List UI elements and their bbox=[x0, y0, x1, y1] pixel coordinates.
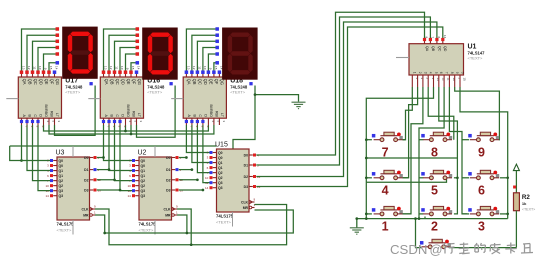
wires U2 D inputs to next stage bbox=[179, 157, 187, 159]
U2 CLK MR pins bbox=[164, 205, 178, 218]
VCC power arrow bbox=[513, 164, 519, 170]
svg-text:<TEXT>: <TEXT> bbox=[468, 56, 484, 61]
svg-text:D: D bbox=[203, 114, 207, 117]
svg-text:Q1: Q1 bbox=[218, 161, 223, 165]
svg-text:Q1: Q1 bbox=[59, 169, 64, 173]
svg-text:15: 15 bbox=[49, 66, 53, 70]
svg-text:14: 14 bbox=[45, 194, 49, 198]
svg-text:QD: QD bbox=[203, 79, 208, 85]
svg-text:QF: QF bbox=[214, 79, 219, 85]
svg-text:Q3: Q3 bbox=[141, 194, 146, 198]
resistor R2 bbox=[514, 193, 520, 211]
svg-text:D2: D2 bbox=[244, 175, 248, 179]
svg-text:QD: QD bbox=[120, 79, 125, 85]
svg-text:13: 13 bbox=[436, 78, 440, 82]
wire display1 common to LT bbox=[55, 86, 96, 136]
svg-text:D1: D1 bbox=[244, 164, 248, 168]
svg-text:QB: QB bbox=[109, 79, 114, 85]
svg-text:1: 1 bbox=[382, 220, 389, 234]
svg-text:15: 15 bbox=[463, 78, 467, 82]
svg-text:7: 7 bbox=[382, 146, 389, 160]
svg-text:5: 5 bbox=[431, 184, 438, 198]
svg-text:C: C bbox=[198, 114, 202, 117]
svg-text:QA: QA bbox=[425, 46, 429, 52]
svg-text:2: 2 bbox=[418, 72, 422, 74]
svg-text:6: 6 bbox=[478, 184, 485, 198]
svg-text:QG: QG bbox=[55, 79, 60, 85]
svg-text:Q2: Q2 bbox=[218, 176, 223, 180]
wire staircase decoder to display bbox=[22, 29, 58, 71]
svg-text:CSDN: CSDN bbox=[390, 242, 427, 257]
svg-text:8: 8 bbox=[431, 146, 438, 160]
hidden power stub bbox=[88, 98, 100, 100]
push button 8 bbox=[421, 132, 452, 141]
wire display3 common to LT and ground bbox=[233, 86, 255, 150]
svg-text:D3: D3 bbox=[244, 185, 248, 189]
svg-text:11: 11 bbox=[447, 78, 451, 81]
watermark chinese characters bbox=[443, 243, 533, 255]
hidden power line bbox=[72, 146, 74, 157]
svg-text:14: 14 bbox=[137, 66, 141, 70]
svg-text:Q3: Q3 bbox=[59, 194, 64, 198]
display common pin bbox=[249, 82, 252, 85]
push button 4 bbox=[372, 170, 403, 179]
svg-text:<TEXT>: <TEXT> bbox=[230, 90, 246, 95]
svg-text:Q0: Q0 bbox=[141, 164, 146, 168]
svg-text:Q3: Q3 bbox=[141, 189, 146, 193]
svg-text:CLK: CLK bbox=[241, 201, 249, 205]
svg-text:D: D bbox=[38, 114, 42, 117]
svg-text:74LS175: 74LS175 bbox=[57, 222, 75, 227]
svg-text:<TEXT>: <TEXT> bbox=[139, 228, 155, 233]
svg-text:4: 4 bbox=[382, 184, 389, 198]
wire RBI chain bbox=[49, 125, 214, 134]
push button 9 bbox=[468, 132, 499, 141]
svg-text:Q0: Q0 bbox=[218, 156, 223, 160]
svg-text:10: 10 bbox=[45, 184, 49, 188]
svg-text:QG: QG bbox=[137, 79, 142, 85]
svg-text:QC: QC bbox=[437, 46, 441, 52]
svg-text:QD: QD bbox=[443, 46, 447, 52]
svg-text:Q2: Q2 bbox=[141, 179, 146, 183]
wires decoder inputs from FF outputs bbox=[104, 125, 133, 161]
svg-text:12: 12 bbox=[27, 66, 31, 70]
wire to ground top bbox=[255, 95, 299, 102]
svg-text:10: 10 bbox=[203, 66, 207, 70]
push button 3 bbox=[468, 206, 499, 215]
svg-text:RBI: RBI bbox=[214, 111, 218, 117]
svg-text:Q2: Q2 bbox=[59, 179, 64, 183]
svg-text:13: 13 bbox=[187, 66, 191, 70]
ground bbox=[292, 101, 306, 103]
svg-text:13: 13 bbox=[22, 66, 26, 70]
svg-text:<TEXT>: <TEXT> bbox=[216, 220, 232, 225]
display segment pins bbox=[215, 27, 219, 31]
svg-text:Q1: Q1 bbox=[141, 169, 146, 173]
7-seg display display 2 bbox=[142, 28, 178, 80]
wire col1 ground vertical bbox=[366, 87, 433, 219]
quad D flip-flop U2 74LS175 bbox=[127, 157, 171, 220]
BCD-7seg decoder U18 74LS248 bbox=[183, 66, 226, 128]
ground 2 bbox=[356, 219, 358, 228]
U15 CLK MR pins bbox=[241, 198, 255, 211]
svg-text:QA: QA bbox=[104, 79, 109, 85]
svg-text:MR: MR bbox=[165, 214, 171, 218]
svg-text:10: 10 bbox=[120, 66, 124, 70]
wire U1 pin1 to key7 bbox=[403, 87, 413, 140]
wire U1 pin9 to key9 bbox=[455, 87, 500, 140]
push button 7 bbox=[372, 132, 403, 141]
svg-text:D0: D0 bbox=[84, 156, 88, 160]
U3 D input pins bbox=[84, 156, 101, 193]
svg-text:QE: QE bbox=[126, 79, 131, 85]
svg-text:<TEXT>: <TEXT> bbox=[65, 90, 81, 95]
wire U1 pin7 col2 ground bbox=[419, 87, 444, 219]
wire display2 common to LT bbox=[137, 86, 176, 138]
wire U2 MR tap bbox=[177, 215, 187, 233]
svg-text:D2: D2 bbox=[166, 178, 170, 182]
display common pin bbox=[89, 82, 92, 85]
7-seg display display 3 bbox=[222, 28, 258, 80]
svg-text:@: @ bbox=[430, 242, 443, 257]
wire bottom ground bus bbox=[357, 218, 508, 220]
hidden power line bbox=[154, 146, 156, 157]
svg-text:D1: D1 bbox=[84, 168, 88, 172]
wire U2 CLK tap bbox=[177, 209, 191, 245]
svg-text:14: 14 bbox=[55, 66, 59, 70]
BCD-7seg decoder U16 74LS248 bbox=[100, 66, 143, 128]
svg-text:10: 10 bbox=[205, 176, 209, 180]
svg-text:14: 14 bbox=[443, 35, 447, 39]
svg-text:<TEXT>: <TEXT> bbox=[57, 228, 73, 233]
svg-text:7: 7 bbox=[445, 72, 449, 74]
wire U1 pin4 to key8 bbox=[428, 87, 454, 140]
svg-text:D3: D3 bbox=[166, 189, 170, 193]
svg-text:Q2: Q2 bbox=[141, 184, 146, 188]
svg-text:1k: 1k bbox=[522, 201, 527, 206]
svg-text:12: 12 bbox=[192, 66, 196, 70]
svg-text:Q0: Q0 bbox=[59, 159, 64, 163]
svg-text:4: 4 bbox=[429, 72, 433, 74]
svg-text:U15: U15 bbox=[215, 142, 228, 149]
pin state square R2 bbox=[513, 186, 516, 189]
svg-text:Q1: Q1 bbox=[218, 166, 223, 170]
wire U1 pin3 to key1 bbox=[403, 87, 423, 214]
BCD-7seg decoder U17 74LS248 bbox=[18, 66, 61, 128]
svg-text:6: 6 bbox=[439, 72, 443, 74]
svg-text:U1: U1 bbox=[468, 44, 477, 51]
svg-text:MR: MR bbox=[243, 206, 249, 210]
wire CLK bus bbox=[95, 205, 287, 245]
svg-text:8: 8 bbox=[450, 72, 454, 74]
svg-text:D: D bbox=[120, 114, 124, 117]
wires U3 D inputs to next stage bbox=[97, 157, 104, 159]
svg-text:D0: D0 bbox=[166, 156, 170, 160]
svg-text:D0: D0 bbox=[244, 154, 248, 158]
svg-text:Q3: Q3 bbox=[59, 189, 64, 193]
svg-text:10: 10 bbox=[38, 66, 42, 70]
display segment pins bbox=[56, 27, 60, 31]
svg-text:74LS175: 74LS175 bbox=[216, 214, 234, 219]
push button 5 bbox=[421, 170, 452, 179]
svg-text:11: 11 bbox=[115, 66, 119, 69]
svg-text:11: 11 bbox=[33, 66, 37, 69]
svg-text:QD: QD bbox=[38, 79, 43, 85]
svg-text:<TEXT>: <TEXT> bbox=[522, 208, 535, 212]
svg-text:QF: QF bbox=[49, 79, 54, 85]
svg-text:QB: QB bbox=[27, 79, 32, 85]
U3 CLK MR pins bbox=[82, 205, 96, 218]
svg-text:Q3: Q3 bbox=[218, 186, 223, 190]
svg-text:15: 15 bbox=[131, 66, 135, 70]
svg-text:MR: MR bbox=[83, 214, 89, 218]
svg-text:QC: QC bbox=[115, 79, 120, 85]
svg-text:10: 10 bbox=[452, 78, 456, 82]
svg-text:2: 2 bbox=[431, 220, 438, 234]
svg-text:CLK: CLK bbox=[82, 208, 90, 212]
wires decoder inputs from FF outputs bbox=[22, 125, 51, 161]
svg-text:QE: QE bbox=[44, 79, 49, 85]
svg-text:0: 0 bbox=[460, 72, 464, 74]
svg-text:RBI: RBI bbox=[49, 111, 53, 117]
quad D flip-flop U3 74LS175 bbox=[45, 157, 89, 220]
svg-text:Q0: Q0 bbox=[218, 151, 223, 155]
svg-text:10: 10 bbox=[127, 184, 131, 188]
svg-text:Q3: Q3 bbox=[218, 181, 223, 185]
wire key row stubs right bbox=[403, 139, 406, 141]
svg-text:Q1: Q1 bbox=[141, 174, 146, 178]
svg-text:RBI: RBI bbox=[131, 111, 135, 117]
wire box around key5 bbox=[366, 157, 457, 159]
wire U1 pin2 to key4 bbox=[403, 87, 418, 178]
wire staircase decoder to display bbox=[186, 29, 217, 71]
quad D flip-flop U15 74LS175 bbox=[205, 149, 249, 212]
data bus verticals from U1 bbox=[256, 12, 424, 155]
push button 2 bbox=[421, 206, 452, 215]
svg-text:CLK: CLK bbox=[164, 208, 172, 212]
hidden power stub U1 bbox=[396, 57, 409, 59]
svg-text:QF: QF bbox=[131, 79, 136, 85]
wire key row stubs left bbox=[366, 139, 372, 141]
push button 6 bbox=[468, 170, 499, 179]
wire key2 to bottom button bbox=[424, 217, 426, 219]
U2 D input pins bbox=[166, 156, 183, 193]
svg-text:R2: R2 bbox=[522, 194, 530, 201]
wire U1 pin8 col3 ground bbox=[449, 87, 467, 214]
svg-text:Q2: Q2 bbox=[218, 171, 223, 175]
wire MR bus bbox=[95, 210, 293, 233]
svg-text:12: 12 bbox=[441, 78, 445, 82]
svg-text:74LS175: 74LS175 bbox=[139, 222, 157, 227]
display segment pins bbox=[136, 27, 140, 31]
wire long net y146 bbox=[10, 145, 217, 147]
hidden power line bbox=[232, 212, 234, 227]
wire R2 down bbox=[515, 211, 517, 248]
svg-text:3: 3 bbox=[478, 220, 485, 234]
svg-text:QA: QA bbox=[187, 79, 192, 85]
wire U1 pin10 to keys 6 3 bbox=[460, 87, 508, 219]
svg-text:13: 13 bbox=[104, 66, 108, 70]
svg-text:3: 3 bbox=[423, 72, 427, 74]
svg-text:15: 15 bbox=[214, 66, 218, 70]
svg-text:QC: QC bbox=[198, 79, 203, 85]
svg-text:QE: QE bbox=[209, 79, 214, 85]
svg-text:C: C bbox=[115, 114, 119, 117]
svg-text:BI/RBO: BI/RBO bbox=[209, 105, 213, 118]
svg-text:Q0: Q0 bbox=[59, 164, 64, 168]
svg-text:14: 14 bbox=[205, 186, 209, 190]
svg-text:5: 5 bbox=[434, 72, 438, 74]
svg-text:U2: U2 bbox=[138, 150, 147, 157]
svg-text:Q1: Q1 bbox=[59, 174, 64, 178]
svg-text:9: 9 bbox=[455, 72, 459, 74]
U15 D input pins bbox=[244, 153, 261, 189]
svg-text:Q0: Q0 bbox=[141, 159, 146, 163]
svg-text:D3: D3 bbox=[84, 189, 88, 193]
svg-text:QB: QB bbox=[431, 46, 435, 52]
svg-text:12: 12 bbox=[109, 66, 113, 70]
svg-text:Q2: Q2 bbox=[59, 184, 64, 188]
wire staircase decoder to display bbox=[104, 29, 138, 71]
svg-text:QB: QB bbox=[192, 79, 197, 85]
push button key bbox=[420, 239, 451, 248]
svg-text:BI/RBO: BI/RBO bbox=[44, 105, 48, 118]
svg-text:U3: U3 bbox=[56, 150, 65, 157]
wire vcc to R2 bbox=[515, 171, 517, 193]
svg-text:11: 11 bbox=[198, 66, 202, 69]
svg-text:D1: D1 bbox=[166, 168, 170, 172]
svg-text:BI/RBO: BI/RBO bbox=[126, 105, 130, 118]
display common pin bbox=[169, 82, 172, 85]
svg-text:QC: QC bbox=[33, 79, 38, 85]
svg-text:1: 1 bbox=[413, 72, 417, 74]
svg-text:<TEXT>: <TEXT> bbox=[147, 90, 163, 95]
svg-text:C: C bbox=[33, 114, 37, 117]
svg-text:QA: QA bbox=[22, 79, 27, 85]
push button 1 bbox=[372, 206, 403, 215]
hidden power stub bbox=[6, 98, 18, 100]
hidden power stub bbox=[171, 98, 183, 100]
svg-text:D2: D2 bbox=[84, 178, 88, 182]
wire U1 pin6 to keys 5 2 bbox=[439, 87, 458, 214]
svg-text:9: 9 bbox=[478, 146, 485, 160]
wire BI chain bbox=[44, 125, 209, 131]
svg-text:14: 14 bbox=[127, 194, 131, 198]
priority encoder U1 74LS147 bbox=[409, 35, 467, 87]
wire bottom button to R2 bbox=[449, 247, 516, 249]
wires decoder inputs from FF outputs bbox=[186, 125, 209, 153]
7-seg display display 1 bbox=[62, 27, 97, 79]
